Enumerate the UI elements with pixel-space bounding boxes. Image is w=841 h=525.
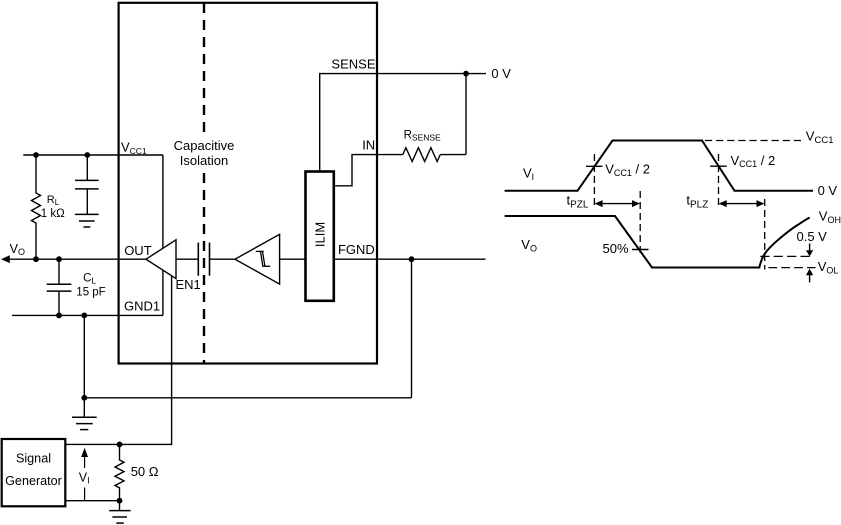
tick: VI falling 50% crossing [710,165,727,167]
VOL up arrow [806,269,813,283]
node 50R bottom [117,498,123,504]
svg-text:Isolation: Isolation [180,153,228,168]
wire: FGND drop [411,259,413,398]
wire: buffer supply vertical (behind U2) [162,155,164,315]
ground: bypass cap [75,214,99,227]
wire: GND1 rail [12,314,163,316]
wire: GND1 to ground drop [83,315,85,417]
VI waveform trace [505,141,813,191]
ground: main [72,417,97,429]
svg-text:ILIM: ILIM [313,222,328,247]
svg-text:0 V: 0 V [491,66,511,81]
node CL/VO [56,256,62,262]
label: Capacitive Isolation [172,138,236,168]
dashed: vertical at VO 0.5V crossing [764,199,766,270]
capacitor: VCC1 bypass [75,155,99,214]
dashed: VOL level [768,267,815,269]
wire: SENSE net [320,74,486,172]
node bypass/VCC1 [84,152,90,158]
tick: VI rising 50% crossing [586,165,603,167]
svg-text:Signal: Signal [16,452,51,466]
svg-text:0.5 V: 0.5 V [797,229,828,244]
node ground row [81,395,87,401]
svg-text:Generator: Generator [5,474,62,488]
svg-text:15 pF: 15 pF [76,287,105,299]
0.5V down arrow [806,244,813,257]
svg-text:0 V: 0 V [818,183,838,198]
node CL/GND1 [56,313,62,319]
wire: ground row to FGND drop [84,397,411,399]
svg-text:SENSE: SENSE [331,57,375,72]
wire: ILIM to IN [334,155,403,186]
VI measurement arrow [81,448,88,501]
resistor 50 Ohm [115,444,124,500]
node 0V [463,71,469,77]
node RL/VO [33,256,39,262]
node FGND [409,256,415,262]
wire: ILIM to FGND row [334,258,486,260]
wire: RSENSE to 0V [440,154,466,156]
svg-text:Capacitive: Capacitive [174,138,235,153]
wire: U2 to iso cap [176,258,198,260]
svg-text:50 Ω: 50 Ω [131,464,159,479]
capacitive isolation barrier (dashed) [203,3,205,364]
svg-text:50%: 50% [603,241,629,256]
node GND drop/GND1 [81,313,87,319]
dashed: vertical at VO 50% [639,191,641,256]
tick: VO 50% crossing [632,249,649,251]
svg-text:FGND: FGND [338,242,375,257]
node VO arrow [1,255,10,263]
dashed: vertical at VI rise crossing [593,154,595,209]
wire: VCC1 rail [23,154,163,156]
node RL/VCC1 [33,152,39,158]
dashed: VOL+0.5 level [760,255,814,257]
capacitor: isolation [197,243,199,276]
svg-text:OUT: OUT [124,243,152,258]
VO waveform trace [505,216,810,268]
dashed: vertical at VI fall crossing [718,154,720,209]
ground: 50 Ohm [109,501,130,523]
wire: SG bottom row [65,500,119,502]
block ILIM [306,172,334,301]
wire: U3 to ILIM [280,258,306,260]
svg-text:IN: IN [362,138,375,153]
op-amp U2 (output buffer) [146,240,176,279]
op-amp U3 (input buffer with hysteresis) [235,234,280,284]
wire: iso cap to U3 [210,258,236,260]
wire: VO output row [9,258,146,260]
node 50R top [117,442,123,448]
IC box U1 [119,3,377,364]
svg-text:EN1: EN1 [176,277,201,292]
signal generator box [2,439,66,506]
dashed: VCC1 level [705,140,803,142]
wire: EN1 [65,276,171,444]
tPLZ measure arrow [719,200,765,207]
tPZL measure arrow [595,200,640,207]
hysteresis symbol [256,251,270,266]
wire: 0V drop to RSENSE [465,74,467,155]
svg-text:GND1: GND1 [124,299,160,314]
resistor RL [32,155,41,259]
resistor RSENSE [403,148,440,162]
capacitor CL [47,259,72,315]
svg-text:1 kΩ: 1 kΩ [41,208,65,220]
